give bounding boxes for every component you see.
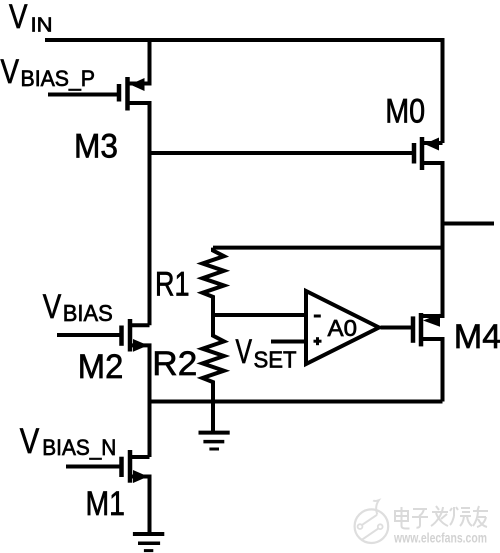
svg-text:V: V (236, 333, 253, 371)
svg-text:IN: IN (31, 14, 53, 37)
svg-text:M1: M1 (86, 485, 126, 523)
svg-text:V: V (9, 0, 28, 36)
svg-text:M0: M0 (385, 92, 425, 130)
svg-text:M2: M2 (78, 348, 124, 386)
svg-text:BIAS_P: BIAS_P (21, 66, 96, 91)
svg-text:BIAS_N: BIAS_N (42, 435, 116, 460)
svg-text:M4: M4 (454, 318, 500, 356)
svg-text:V: V (20, 422, 40, 461)
svg-text:A0: A0 (328, 315, 358, 341)
svg-text:V: V (43, 288, 62, 326)
svg-text:R2: R2 (152, 345, 197, 383)
svg-text:R1: R1 (155, 265, 190, 303)
svg-text:www.elecfans.com: www.elecfans.com (393, 531, 487, 546)
svg-text:M3: M3 (74, 128, 118, 166)
svg-text:SET: SET (254, 347, 297, 373)
svg-text:V: V (1, 53, 20, 91)
svg-text:BIAS: BIAS (63, 300, 113, 326)
